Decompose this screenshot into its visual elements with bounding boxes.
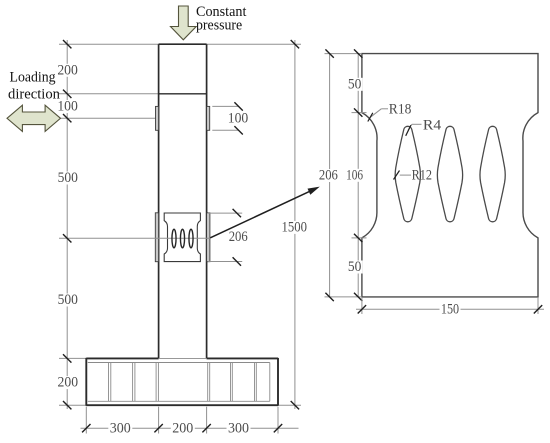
svg-text:200: 200 [57,62,78,78]
svg-text:100: 100 [57,99,78,115]
svg-text:R12: R12 [412,167,432,183]
svg-text:150: 150 [441,301,459,317]
svg-text:50: 50 [348,76,362,92]
svg-text:500: 500 [58,292,78,308]
svg-text:300: 300 [110,420,131,436]
svg-text:200: 200 [58,375,79,391]
svg-text:300: 300 [228,420,249,436]
svg-text:R18: R18 [389,101,412,117]
svg-text:Loading: Loading [10,70,57,86]
svg-text:500: 500 [58,170,78,186]
svg-text:200: 200 [172,420,193,436]
svg-text:50: 50 [348,259,362,275]
svg-text:206: 206 [319,168,338,184]
svg-text:1500: 1500 [281,219,307,235]
svg-text:206: 206 [229,229,248,245]
svg-text:106: 106 [346,167,363,183]
svg-text:100: 100 [228,111,249,127]
svg-text:direction: direction [8,87,60,103]
svg-text:pressure: pressure [196,17,243,33]
svg-text:R4: R4 [423,117,442,133]
